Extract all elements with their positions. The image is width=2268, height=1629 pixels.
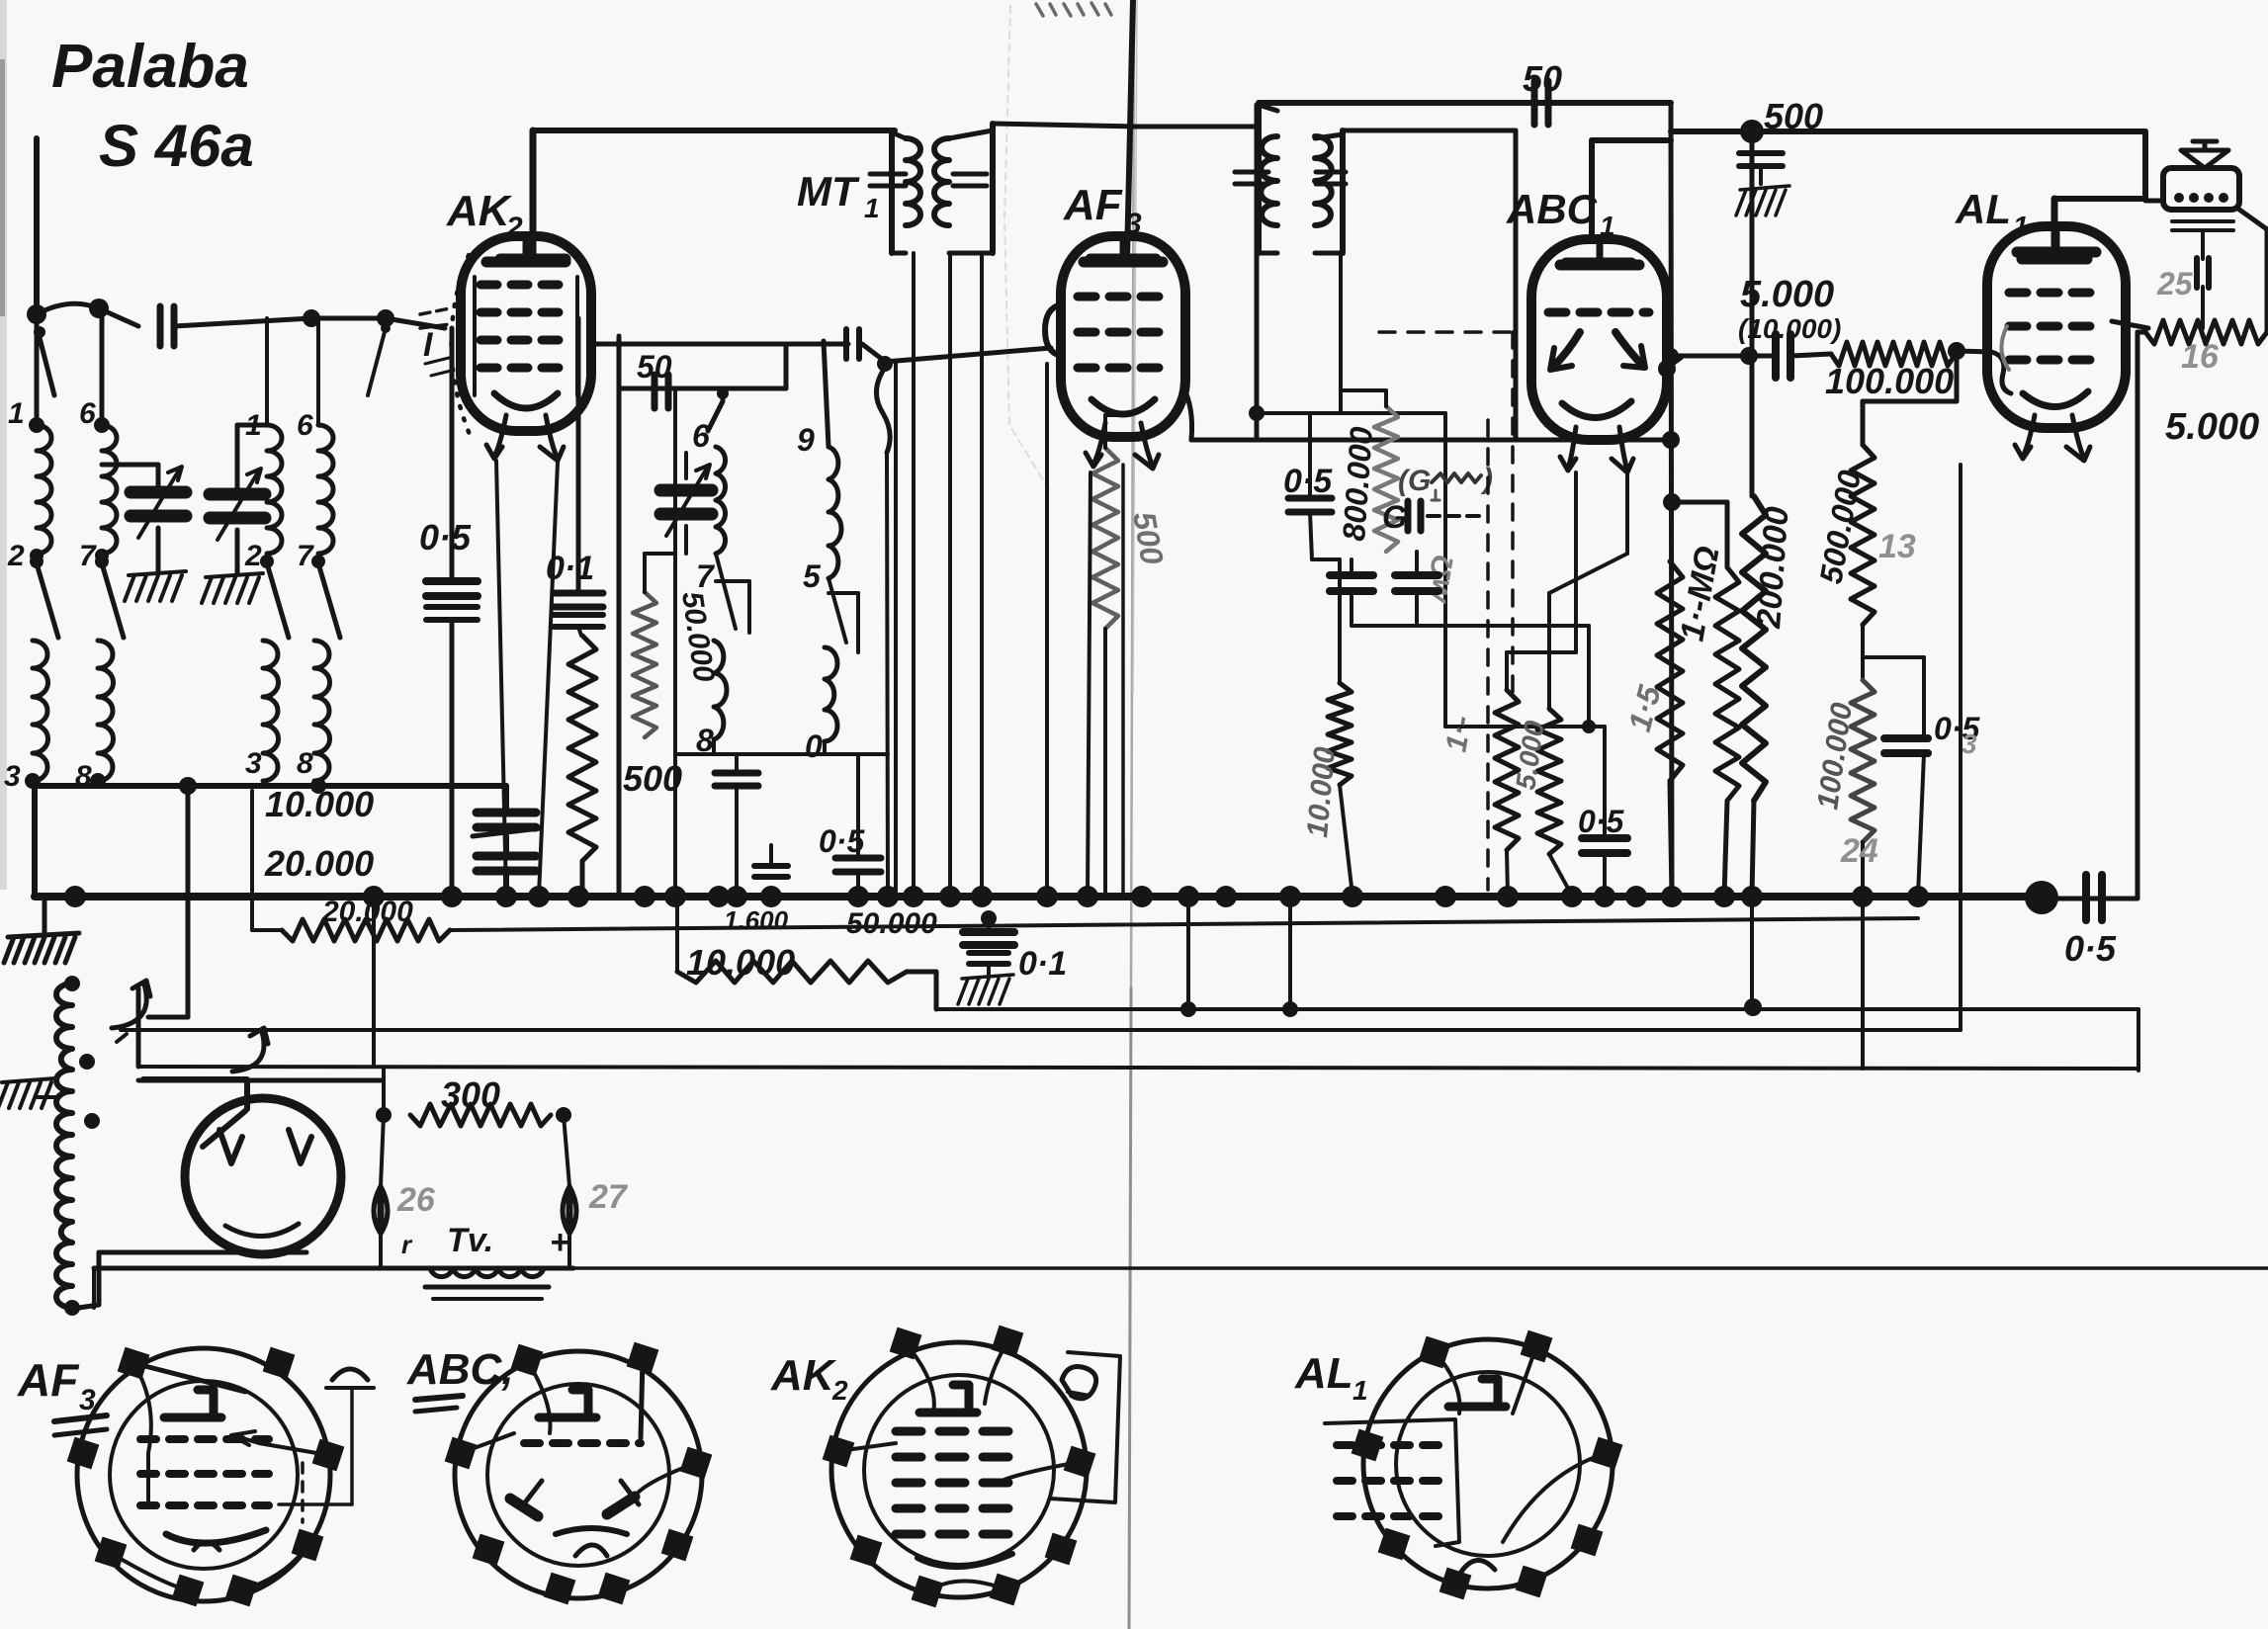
wire rotary switch shaft [148,786,188,1017]
svg-text:3: 3 [4,760,21,793]
wire det chain [1310,512,1340,683]
pin 2 [7,540,44,572]
rectifier filament right [289,1130,311,1163]
wire H6 [94,1266,2268,1271]
svg-text:5: 5 [803,558,822,594]
svg-text:AL: AL [1955,186,2011,232]
svg-text:24: 24 [1840,832,1878,870]
rectifier filament left [219,1130,242,1163]
wire H4 heater [138,1067,2138,1069]
wire AK2 osc grid [591,342,848,347]
ground mains [0,1078,59,1108]
ground main [4,897,79,963]
node 3-8 junction [179,777,326,795]
socket AK2 wires [838,1341,1080,1591]
capacitor IF2 primary [1235,172,1268,184]
label 0.1 AK2 [546,550,594,587]
socket AK2 thimble [1062,1367,1096,1399]
svg-text:AL: AL [1294,1349,1353,1398]
svg-text:100.000: 100.000 [1825,361,1954,401]
socket AF3 antenna [279,1369,374,1504]
capacitor 0.1 gnd [958,910,1014,1004]
node 300 right [556,1107,571,1186]
pin label 1 [245,409,262,442]
svg-text:Tv.: Tv. [447,1222,493,1259]
wire k1 bus [1507,850,1508,896]
svg-text:0: 0 [805,729,823,764]
label MT1 [797,168,880,223]
wire ABC1 k1 [1507,472,1576,690]
resistor 5.000 cathode [1537,709,1561,854]
pin 8 [75,760,106,793]
osc coil 5-0 [825,647,837,741]
socket ABC1 [445,1342,713,1605]
capacitor 0.5 AK2 [426,581,478,620]
wire speaker right [2239,210,2267,332]
svg-text:27: 27 [588,1178,629,1216]
label 20.000 [264,843,374,884]
wire MOhm bus [1724,801,1727,896]
socket AF3 label [17,1354,107,1435]
resistor 50.000 osc [633,592,656,737]
wire k2 bus [1549,854,1572,896]
svg-text:ABC,: ABC, [406,1345,514,1394]
svg-text:6: 6 [692,418,710,454]
switch lever node B [368,323,391,395]
trimmer C1 top lead [102,465,158,492]
socket AK2 label [770,1351,848,1406]
tube AK2 envelope [461,236,591,431]
wire x1271 [1255,105,1260,440]
aerial coil 2-3 [33,641,48,781]
label 1-MOhm [1673,544,1726,644]
svg-text:500: 500 [1764,96,1823,136]
tube AF3 dashes [1078,297,1173,368]
capacitor 0.5 osc [835,754,881,896]
transformer mains taps [64,976,100,1316]
svg-text:50.000: 50.000 [846,907,937,940]
label 1.600 [724,905,789,935]
resistor 100.000 grid [1831,342,1956,366]
svg-text:6: 6 [297,409,313,442]
wire MT1 pri bottom [948,253,952,896]
resistor 10.000 det [1328,683,1352,785]
label 300 [441,1074,500,1115]
node x1772 y360 [1740,347,1758,365]
wire x1884 drop [1861,897,1865,1069]
wire field to bus [2137,332,2145,899]
svg-text:AF: AF [17,1354,80,1406]
label 27 pencil [588,1178,629,1216]
label 0.5 AK2 [419,517,472,557]
capacitor 0.5 det [1288,413,1332,512]
wire H3 risers [1188,896,1290,1009]
pin 1 [8,397,44,433]
resistor 800.000 pot [1374,406,1398,552]
label TV [447,1222,493,1259]
wire y393 [619,386,786,391]
socket AF3 dashes [140,1439,269,1505]
wire AF3 grid2 [862,344,1051,362]
tube AK2 cathode arc [494,393,558,408]
svg-text:6: 6 [79,397,96,430]
wire minus rail drop [250,791,254,930]
trimmer C2 [210,469,265,573]
svg-text:MT: MT [797,168,860,214]
label 0.5 osc [819,823,865,859]
resistor 20.000 horizontal [282,919,450,941]
resistor 1-MOhm [1715,567,1739,801]
tube AK2 heater arrows [486,415,564,461]
capacitor MT1 secondary [953,174,987,186]
svg-text:AK: AK [446,187,513,235]
resistor 10.000 horizontal [677,896,907,983]
tube AF3 heater arrows [1086,423,1159,469]
label 0.5 output [2064,928,2117,969]
label 24 pencil [1840,832,1878,870]
rectifier circle [185,1098,341,1254]
wire ABC1 to cap [1663,348,1776,368]
capacitor MT1 primary [870,174,906,186]
left edge scan shadow [0,0,7,890]
bus thin extension [2042,897,2137,901]
tube AL1 inner hook [2001,326,2009,370]
socket AL1 wires [1435,1346,1607,1542]
resistor 500 AF3 [1092,448,1118,629]
socket AF3 dashed arc [301,1463,305,1522]
node H3 a [1180,998,1762,1017]
dashed shield h [1379,330,1513,334]
svg-text:1: 1 [8,397,25,430]
svg-text:AK: AK [770,1351,837,1400]
switch 6 [708,401,723,431]
svg-text:3: 3 [245,747,262,780]
label 5.000 cathode [1510,719,1550,792]
socket AL1 arc [1461,1560,1495,1572]
pin label 2 [244,540,262,572]
svg-text:1: 1 [245,409,262,442]
antenna column to bus [32,786,38,896]
label 25 pencil [2156,266,2194,301]
wire MT1 sec bottom [912,253,916,896]
wire speaker left [2145,199,2163,204]
tube ABC1 heater arrows [1560,427,1633,472]
pin label 3 [245,747,262,780]
wire det to bus [1340,785,1352,896]
osc trimmer lead [684,453,688,554]
wire AF3 cathode to bus [1088,465,1123,896]
wire 1.5 bus [1670,781,1672,896]
osc coil 7-8 [714,641,727,739]
label Germ pot [1398,463,1493,500]
wire heater lower [138,1078,381,1083]
wire MOhm loop [1672,502,1727,567]
wire 500.000 step [1863,351,1957,445]
label 500 AF3 [1126,509,1171,567]
arrow mains switch [232,1028,268,1072]
label 200.000 [1750,505,1796,630]
wire 50 cap top [1259,100,1671,106]
dashed shield v2 [1511,332,1515,692]
label 50 cap [637,349,672,385]
wire pot top [1341,390,1386,406]
pin label 6 [297,409,313,442]
wire coil bottoms [35,783,506,789]
speaker transformer cap [2197,230,2209,328]
svg-text:ABC: ABC [1506,186,1598,232]
label 1.5 [1621,681,1668,735]
wire AF3 lead to IF2 [1135,125,1257,129]
label 100.000 k [1811,701,1859,812]
paper flap outline [1004,6,1052,494]
tube ABC1 dashes [1548,308,1649,317]
capacitor 500 [1739,153,1783,184]
switch lever antenna [34,326,54,395]
rectifier bottom arc [225,1224,299,1237]
wire 10.000 step [907,972,936,1009]
wire x1690 drop [1671,103,1672,896]
tube AL1 envelope [1987,226,2126,428]
label MOhm pencil [1420,553,1460,606]
socket AK2 [823,1326,1096,1608]
socket AL1 label [1294,1349,1368,1406]
label 0.5 det [1283,463,1333,500]
wire x626 column [617,336,622,896]
svg-text:1.600: 1.600 [724,905,789,935]
label 100.000 grid [1825,361,1954,401]
svg-text:7: 7 [696,558,716,594]
label 0 osc [805,729,823,764]
transformer MT1 left rail [892,132,906,253]
transformer MT1 secondary [934,138,949,225]
label plus [550,1224,569,1261]
socket ABC1 diodes [510,1481,639,1516]
socket ABC1 label [406,1345,514,1412]
transformer MT1 right rail [949,124,993,253]
dashed shield v1 [1486,420,1490,890]
capacitor coupling AL1 [1776,334,1790,378]
node B [377,309,394,327]
switch lever 2 [260,555,289,638]
tube AK2 top lead [500,130,566,259]
label 5 osc [803,558,822,594]
switch 5 [829,578,858,652]
tube AF3 cathode arc [1091,399,1155,414]
tube AF3 envelope [1061,236,1185,437]
resistor 1.- cathode [1495,690,1519,850]
svg-text:0·5: 0·5 [819,823,865,859]
label AL1 [1955,186,2029,241]
wire AK2 heater leads [496,461,558,896]
pin label 7 [297,540,314,572]
tube AF3 top lead [1090,0,1156,259]
svg-text:20.000: 20.000 [264,843,374,884]
wire 50.000 top [645,390,675,896]
aerial coil 6-7 [102,425,117,554]
socket AL1 [1352,1330,1623,1600]
resistor 200.000 [1742,496,1766,801]
capacitor IF2 secondary [1316,172,1346,184]
node grid AL1 [1948,342,1965,360]
fuse 26 [374,1115,388,1268]
capacitor 1.600 [754,845,788,877]
capacitor AF3 grid [846,329,859,359]
switch 7 [716,554,749,633]
svg-text:10.000: 10.000 [265,784,374,824]
label 9 osc [797,422,815,458]
wire y133 right [1671,129,2145,134]
label 16 pencil [2181,338,2220,376]
title S 46a [99,113,254,179]
wire x1462 [1443,413,1447,727]
osc coil 6 [716,447,726,554]
svg-text:1: 1 [1352,1375,1368,1406]
ground trimmer C1 [125,571,186,601]
label 13 pencil [1878,528,1916,565]
wire rect top frame [143,1079,247,1147]
osc coil 9 [829,447,841,578]
capacitor G [1382,499,1479,535]
tube AK2 grid dashes [475,277,577,395]
wire osc bottoms [675,739,888,754]
label AK2 [446,187,523,244]
transformer mains winding [56,984,72,1308]
wire 500.000 down [1861,625,1865,657]
bus junction dots [64,886,1929,907]
svg-text:3: 3 [1962,729,1977,759]
wire y735 [1445,720,1605,733]
capacitor padder [715,754,758,896]
label 26 pencil [396,1181,436,1219]
svg-text:13: 13 [1878,528,1916,565]
wire osc corner [784,345,789,388]
svg-text:2: 2 [7,540,25,572]
transformer IF2 right rail [1315,130,1343,253]
bus big terminal dot [2025,881,2058,914]
tube AF3 grid collar [1045,304,1061,356]
tube AL1 cathode arc [2023,391,2088,407]
socket AL1 rect [1325,1419,1459,1546]
svg-text:9: 9 [797,422,815,458]
arrow rotary left [112,981,150,1028]
wire H6b [92,1268,96,1308]
tube ABC1 top lead [1566,140,1671,263]
label 0.5 k [1934,711,1980,759]
tube AL1 top lead [2022,131,2145,259]
capacitor 50 [654,375,668,408]
svg-text:S 46a: S 46a [99,113,254,179]
socket AF3 wires [111,1363,328,1590]
wire cap to AK2 grid [174,318,445,328]
label 500 AK2 [623,758,682,799]
wire coil1 tops [37,308,102,425]
wire IF2 to ABC1 [1345,130,1516,440]
pin 3 [4,760,41,793]
label (10.000) [1738,313,1841,344]
aerial coil 7-8 [98,641,114,781]
label AF3 [1063,181,1142,240]
wire IF2 sec bottom [1339,253,1343,413]
transformer MT1 primary [906,138,920,225]
wire mains to heater [136,988,141,1067]
tuner coil 7-8 [314,641,330,781]
svg-text:8: 8 [297,747,313,780]
svg-text:2: 2 [244,540,262,572]
coil bank2 top leads [267,318,318,425]
tube ABC1 cathode arc [1562,401,1631,418]
label 10.000 det [1301,745,1342,839]
svg-text:0·5: 0·5 [1578,804,1624,839]
wire H3 [936,1007,2138,1011]
wire AL1 anode right [2112,321,2148,328]
pin 6 [79,397,110,433]
wire mid caps [1352,626,1589,727]
trimmer C2 top lead [237,425,267,494]
tube AL1 heater arrows [2015,415,2090,461]
svg-text:5.000: 5.000 [2165,406,2259,448]
resistor speaker field [2145,320,2267,344]
capacitor 10.000 [473,786,540,836]
transformer TV [430,1268,544,1277]
label 5.000 speaker [2165,406,2259,448]
wire 100.000k step [1863,657,1924,736]
socket ABC1 wires [461,1358,696,1499]
node 500 cap [1740,120,1764,143]
tuner coil 1-2 [267,425,282,554]
ground trimmer C2 [202,573,263,603]
svg-text:1: 1 [864,193,880,223]
fuse 27 [563,1186,576,1268]
wire antenna to coupling cap [37,303,138,326]
switch 2 [30,555,58,638]
wire ABC1 k2 [1549,474,1627,709]
capacitor 0.1 AK2 [554,593,603,627]
svg-text:0·1: 0·1 [546,550,594,587]
svg-text:AF: AF [1063,181,1123,229]
label 0.5 cathode [1578,804,1624,839]
label 50.000 under bus [846,907,937,940]
capacitor 0.5 cathode [1582,727,1627,896]
svg-text:26: 26 [396,1181,436,1219]
aerial coil 1-2 [37,425,51,554]
resistor 100.000 k [1851,680,1875,842]
capacitor mid-right [1395,552,1439,626]
label 8 osc [696,723,714,758]
wire 100.000k bus [1861,842,1865,896]
wire coil9 drop [824,341,829,447]
capacitor mid-left [1330,559,1373,626]
label 500 top [1764,96,1823,136]
svg-text:16: 16 [2181,338,2220,376]
resistor 500.000 [1851,445,1875,625]
socket AK2 box [1050,1352,1120,1502]
wire x993 [980,253,984,896]
socket AL1 dashes [1337,1445,1451,1516]
node antenna [27,299,109,324]
ground 500 [1736,186,1789,215]
capacitor 0.5 k [1884,738,1928,896]
capacitor 20.000 [477,836,536,896]
socket ABC1 dashes [524,1439,641,1447]
wire 0.5 to bus [450,620,455,896]
tuner coil 2-3 [263,641,279,781]
svg-text:10.000: 10.000 [686,942,795,983]
wire grid drop 0.1 [576,318,581,591]
capacitor 0.5 output [2086,875,2102,920]
wire grid AL1 [1957,351,2011,393]
transformer IF2 primary [1261,136,1277,225]
socket AK2 grid [896,1431,1008,1534]
